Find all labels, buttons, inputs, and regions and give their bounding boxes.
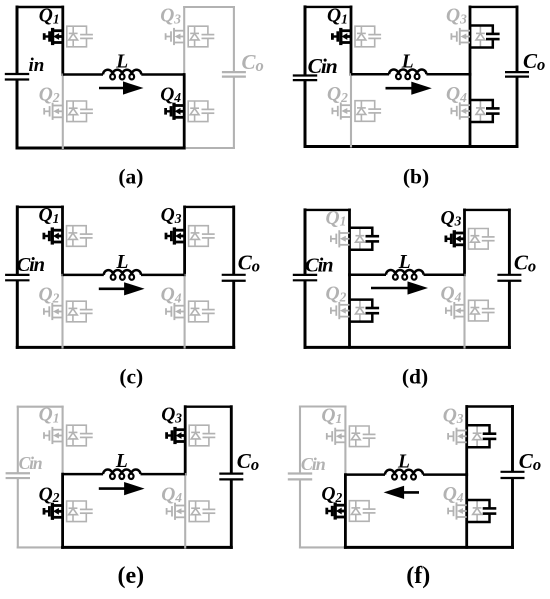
wire (d): input rail lower	[304, 281, 307, 347]
inductor L (f)	[385, 470, 423, 480]
capacitor Cin (c)	[5, 274, 29, 276]
wire (a): bottom rail right part	[184, 147, 234, 149]
svg-text:L: L	[115, 451, 128, 472]
transistor Q2 (f)	[326, 501, 375, 522]
wire (b): output rail	[516, 7, 519, 71]
panel (f)	[0, 0, 1, 1]
wire (e): top-right segment	[185, 406, 231, 408]
wire (e): Q2 leg	[61, 474, 64, 547]
wire (c): Q1 leg	[61, 207, 64, 275]
wire (f): Q3 leg	[465, 407, 468, 475]
wire (b): Q4 leg	[469, 74, 472, 146]
transistor Q4 (f)	[448, 500, 497, 522]
wire (a): Q4 leg	[183, 75, 186, 149]
svg-text:Cin: Cin	[17, 254, 45, 276]
wire (d): Q1 leg	[348, 210, 351, 275]
transistor Q2 (e)	[44, 501, 93, 522]
wire (d): bottom rail	[305, 346, 509, 349]
wire (f): Q1 leg	[344, 407, 346, 475]
wire (a): top-right segment	[184, 6, 234, 8]
wire (d): mid node right	[424, 274, 465, 277]
transistor Q1 (c)	[44, 226, 93, 247]
wire (a): mid node right	[141, 73, 184, 76]
wire (d): mid node left	[350, 274, 387, 277]
capacitor Cin (d)	[293, 274, 317, 276]
transistor Q2 (c)	[44, 301, 93, 322]
wire (b): mid node right	[426, 73, 470, 76]
capacitor Cin (f)	[288, 472, 312, 474]
wire (a): Q2 leg	[62, 75, 64, 149]
transistor Q1 (a)	[44, 26, 93, 47]
wire (b): Q1 leg	[350, 7, 353, 74]
inductor L (d)	[386, 270, 424, 280]
wire (e): Q3 leg	[184, 407, 187, 474]
wire (c): input rail + top-left segment	[16, 207, 19, 274]
capacitor Cin (b)	[293, 74, 317, 76]
wire (c): input rail lower	[16, 281, 19, 347]
inductor L (c)	[104, 270, 141, 280]
wire (d): output rail	[508, 210, 511, 274]
wire (e): Q1 leg	[62, 407, 64, 474]
svg-text:(e): (e)	[117, 563, 144, 589]
panel (d)	[0, 0, 1, 1]
current direction arrow (d)	[371, 281, 428, 294]
wire (d): top-right segment	[465, 209, 510, 211]
transistor Q1 (b)	[332, 26, 381, 47]
wire (c): Q2 leg	[61, 275, 63, 348]
wire (e): input rail lower	[17, 479, 19, 547]
wire (f): Q2 leg	[344, 475, 347, 548]
svg-text:L: L	[397, 452, 410, 473]
capacitor Co (e)	[219, 473, 243, 475]
transistor Q2 (b)	[332, 101, 381, 122]
capacitor Cin (a)	[5, 73, 29, 75]
panel (e)	[0, 0, 1, 1]
svg-text:(c): (c)	[119, 364, 143, 388]
svg-text:in: in	[29, 55, 45, 76]
wire (b): Q3 leg	[469, 7, 472, 74]
wire (f): input rail lower	[299, 480, 301, 547]
wire (f): Q4 leg	[465, 475, 468, 548]
wire (d): Q2 leg	[348, 275, 351, 348]
wire (c): Q3 leg	[183, 207, 186, 275]
wire (a): bottom rail left part	[17, 147, 184, 150]
svg-text:L: L	[398, 252, 411, 273]
capacitor Co (d)	[497, 274, 521, 276]
svg-text:Cin: Cin	[301, 454, 326, 474]
wire (e): output rail	[230, 407, 233, 473]
wire (b): top-right segment	[470, 6, 517, 8]
current direction arrow (f)	[384, 486, 419, 499]
wire (d): Q3 leg	[463, 210, 466, 275]
wire (f): bottom rail right part	[345, 546, 512, 549]
svg-text:Cin: Cin	[19, 453, 42, 473]
svg-text:L: L	[115, 252, 128, 273]
svg-text:L: L	[115, 52, 128, 73]
transistor Q4 (c)	[166, 301, 215, 322]
transistor Q4 (d)	[446, 300, 495, 321]
wire (e): Q4 leg	[184, 474, 186, 547]
capacitor Co (c)	[222, 274, 246, 276]
svg-text:Cin: Cin	[305, 255, 333, 277]
transistor Q3 (f)	[448, 425, 497, 447]
transistor Q1 (f)	[326, 426, 375, 447]
svg-text:(f): (f)	[406, 563, 430, 589]
wire (e): bottom rail right part	[63, 546, 232, 549]
wire (a): output rail	[233, 7, 235, 71]
wire (e): input rail + top-left segment	[17, 407, 19, 473]
transistor Q3 (e)	[166, 425, 215, 446]
wire (f): top-right segment	[467, 405, 513, 407]
capacitor Cin (e)	[6, 472, 30, 474]
svg-text:(d): (d)	[402, 364, 428, 388]
inductor L (a)	[103, 70, 141, 80]
inductor L (b)	[389, 70, 426, 80]
wire (c): bottom rail	[17, 346, 233, 349]
wire (c): top-right segment	[185, 206, 234, 208]
current direction arrow (a)	[99, 81, 144, 94]
wire (b): input rail + top-left segment	[304, 7, 307, 75]
wire (e): mid node right	[141, 473, 186, 476]
capacitor Co (f)	[501, 471, 525, 473]
current direction arrow (c)	[99, 282, 145, 295]
transistor Q3 (c)	[166, 226, 215, 247]
wire (d): Q4 leg	[463, 275, 465, 348]
wire (a): Q1 leg	[61, 7, 64, 75]
inductor L (e)	[103, 470, 140, 479]
current direction arrow (b)	[386, 82, 432, 95]
wire (b): Q2 leg	[350, 74, 352, 146]
wire (f): mid node left	[345, 473, 385, 476]
svg-text:(a): (a)	[118, 164, 143, 188]
transistor Q3 (a)	[165, 26, 214, 47]
wire (e): mid node left	[63, 473, 104, 476]
wire (b): mid node left	[351, 73, 389, 76]
current direction arrow (e)	[99, 482, 145, 495]
wire (f): bottom rail left part	[300, 546, 345, 548]
panel (a)	[0, 0, 1, 1]
panel (b)	[0, 0, 1, 1]
wire (a): Q3 leg	[183, 7, 185, 75]
wire (b): bottom rail	[305, 145, 517, 148]
capacitor Co (b)	[505, 71, 529, 73]
panel (c)	[0, 0, 1, 1]
transistor Q2 (a)	[44, 101, 93, 122]
transistor Q2 (d)	[331, 300, 380, 322]
transistor Q4 (b)	[451, 100, 500, 122]
transistor Q3 (b)	[451, 26, 500, 48]
transistor Q4 (a)	[165, 101, 214, 122]
wire (c): mid node left	[63, 274, 104, 277]
svg-text:Cin: Cin	[308, 54, 337, 78]
transistor Q1 (e)	[44, 425, 93, 446]
wire (c): output rail	[232, 207, 235, 274]
wire (a): input rail + top-left segment	[16, 7, 19, 73]
capacitor Co (a)	[222, 71, 246, 73]
wire (d): input rail + top-left segment	[304, 210, 307, 274]
svg-text:(b): (b)	[403, 164, 429, 188]
wire (a): mid node left	[63, 73, 103, 76]
wire (c): Q4 leg	[184, 275, 186, 348]
wire (b): input rail lower	[304, 81, 307, 146]
wire (f): mid node right	[423, 473, 467, 476]
wire (e): bottom rail left part	[18, 546, 63, 548]
wire (a): input rail lower	[16, 81, 19, 149]
transistor Q1 (d)	[331, 228, 380, 250]
transistor Q3 (d)	[446, 229, 495, 250]
wire (f): input rail + top-left segment	[299, 407, 301, 473]
svg-text:L: L	[401, 51, 414, 72]
wire (c): mid node right	[141, 274, 185, 277]
transistor Q4 (e)	[166, 501, 215, 522]
wire (f): output rail	[511, 407, 514, 471]
